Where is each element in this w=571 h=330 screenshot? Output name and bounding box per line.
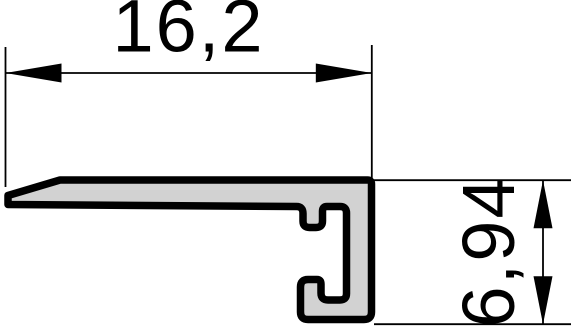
extension line left [5, 47, 7, 187]
extension line bottom (right dim) [374, 323, 571, 325]
arrow left [6, 64, 62, 83]
dimension line 6,94 [542, 180, 544, 324]
extension line right (top dim) [371, 45, 373, 184]
arrow right [316, 64, 372, 83]
extension line top (right dim) [373, 179, 571, 181]
dimension line 16,2 [6, 72, 372, 74]
arrow down [534, 276, 553, 324]
arrow up [534, 180, 553, 228]
svg-text:6,94: 6,94 [447, 175, 530, 327]
svg-text:16,2: 16,2 [112, 0, 264, 68]
profile cross-section body [8, 180, 372, 320]
